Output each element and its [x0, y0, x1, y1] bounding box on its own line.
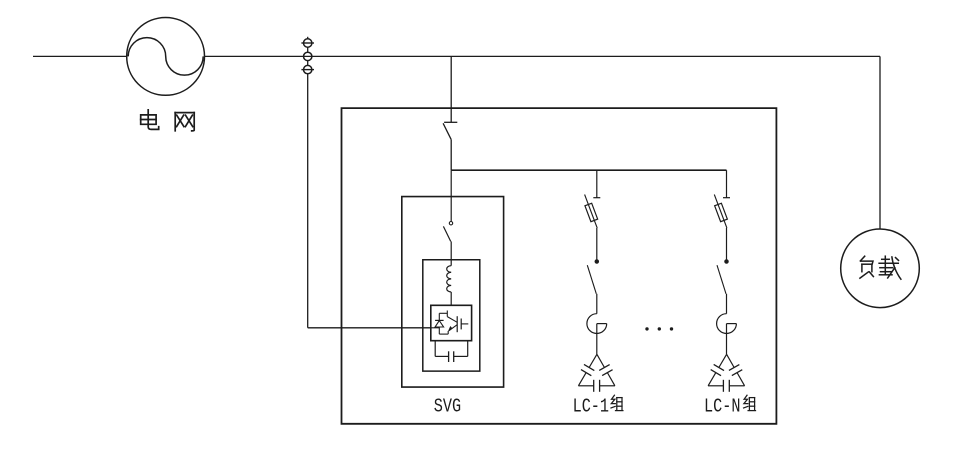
svg-text:SVG: SVG	[434, 397, 461, 418]
svg-text:LC-N: LC-N	[704, 397, 740, 418]
svg-text:LC-1: LC-1	[573, 397, 609, 418]
